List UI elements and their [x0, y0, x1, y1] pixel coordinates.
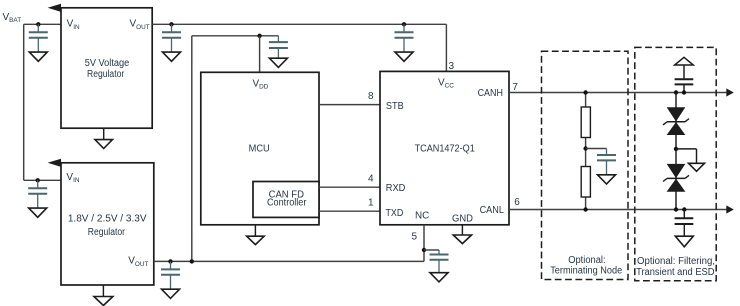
wire CANH bus: [509, 92, 727, 94]
ground TCAN GND pin: [453, 225, 471, 244]
wire TXD: [319, 210, 380, 212]
pin RXD label: [386, 183, 406, 194]
node CANL TVS junction: [674, 207, 678, 211]
node VBAT label: [3, 12, 22, 24]
wire TVS vertical: [675, 93, 677, 210]
capacitor VDD: [269, 36, 288, 68]
wire VDD rail: [192, 35, 279, 37]
wire STB: [319, 104, 380, 106]
TVS diode upper: [663, 108, 689, 135]
resistor termination lower: [581, 167, 590, 198]
block TCAN1472-Q1: [380, 71, 509, 224]
capacitor NC pin5: [430, 250, 449, 282]
pin VDD MCU: [253, 78, 269, 90]
ground lower regulator: [94, 285, 113, 306]
node VDD riser junction: [190, 259, 194, 263]
dashed box Optional Filtering Transient and ESD: [635, 47, 716, 280]
pin number 3: [449, 61, 455, 72]
wire termination cap branch: [586, 148, 607, 150]
svg-text:3: 3: [449, 61, 455, 72]
wire VBAT vertical drop: [23, 24, 25, 180]
svg-text:6: 6: [514, 197, 520, 208]
svg-text:MCU: MCU: [249, 144, 270, 155]
pin number 8: [368, 91, 374, 102]
pin VIN 5V regulator: [67, 19, 80, 31]
node VCC cap junction: [402, 22, 406, 26]
wire VBAT horizontal: [24, 23, 61, 25]
node CANH filter junction: [682, 90, 686, 94]
ground TVS midpoint: [689, 163, 705, 171]
node 5V rail cap junction: [169, 22, 173, 26]
svg-text:8: 8: [368, 91, 374, 102]
pin number 4: [368, 173, 374, 184]
node NC junction: [422, 248, 426, 252]
label Optional Filtering: [636, 256, 715, 278]
pin CANH label: [478, 88, 503, 99]
arrow filter cap up: [675, 57, 694, 65]
pin NC label: [415, 211, 429, 222]
node lower VIN junction: [36, 178, 40, 182]
block 5V Voltage Regulator: [61, 8, 152, 128]
pin VCC TCAN: [438, 78, 454, 90]
pin VOUT lower regulator: [128, 256, 148, 268]
pin number 1: [368, 197, 374, 208]
node lower VOUT cap junction: [168, 259, 172, 263]
label CAN FD Controller: [267, 190, 307, 209]
wire CANL bus: [509, 209, 727, 211]
block MCU: [201, 72, 319, 225]
wire VDD riser: [191, 36, 193, 262]
capacitor termination: [597, 149, 616, 185]
wire NC cap lead: [424, 249, 439, 251]
node VBAT junction: [36, 22, 40, 26]
pin VIN lower regulator: [66, 172, 79, 184]
wire RXD: [319, 186, 380, 188]
svg-text:CANL: CANL: [480, 205, 505, 216]
capacitor VCC: [395, 24, 414, 61]
node CANH termination junction: [583, 90, 587, 94]
wire into lower regulator VIN: [24, 179, 61, 181]
wire lower VOUT rail: [154, 260, 424, 262]
pin number 5: [411, 232, 417, 243]
input arrow 5V regulator: [48, 4, 61, 12]
block CAN FD Controller: [253, 182, 319, 218]
svg-text:4: 4: [368, 173, 374, 184]
wire VDD stub: [259, 36, 261, 73]
svg-text:Regulator: Regulator: [88, 227, 126, 238]
label TCAN1472-Q1: [415, 144, 476, 155]
arrow CANL bus: [726, 205, 734, 213]
wire termination vertical: [585, 93, 587, 210]
capacitor CANH filter: [675, 79, 694, 84]
capacitor VBAT input: [29, 24, 48, 61]
node CANL filter junction: [682, 207, 686, 211]
arrow CANH bus: [726, 88, 734, 96]
node TVS midpoint: [674, 147, 678, 151]
TVS diode lower: [663, 164, 689, 191]
wire TVS ground branch: [676, 149, 697, 163]
svg-text:7: 7: [512, 82, 518, 93]
svg-text:NC: NC: [415, 211, 429, 222]
wire VCC drop: [445, 24, 447, 71]
pin number 7: [512, 82, 518, 93]
svg-text:RXD: RXD: [386, 183, 406, 194]
block 1.8V/2.5V/3.3V Regulator: [61, 163, 154, 285]
svg-text:STB: STB: [386, 101, 404, 112]
ground 5V regulator: [95, 128, 113, 148]
svg-text:5V Voltage: 5V Voltage: [85, 58, 130, 69]
ground MCU: [247, 225, 265, 245]
svg-text:Terminating Node: Terminating Node: [550, 266, 622, 277]
pin STB label: [386, 101, 404, 112]
svg-text:1: 1: [368, 197, 374, 208]
capacitor 5V VOUT: [162, 24, 181, 61]
node termination midpoint: [583, 146, 587, 150]
svg-text:Transient and ESD: Transient and ESD: [636, 267, 714, 278]
wire filter cap upper lead: [683, 65, 685, 79]
capacitor CANL filter: [675, 218, 694, 224]
label 1.8V/2.5V/3.3V Regulator: [68, 213, 147, 238]
resistor termination upper: [581, 107, 590, 138]
wire CANL filter lead: [683, 210, 685, 219]
svg-text:1.8V / 2.5V / 3.3V: 1.8V / 2.5V / 3.3V: [68, 213, 147, 224]
svg-text:TCAN1472-Q1: TCAN1472-Q1: [415, 144, 476, 155]
svg-text:5: 5: [411, 232, 417, 243]
dashed box Optional Terminating Node: [542, 51, 629, 279]
label 5V Voltage Regulator: [85, 58, 130, 80]
pin CANL label: [480, 205, 505, 216]
input arrow lower regulator: [48, 159, 61, 167]
node CANL termination junction: [583, 207, 587, 211]
wire NC stub: [423, 225, 425, 262]
wire filter cap to CANH: [683, 84, 685, 92]
ground CANL filter: [675, 236, 693, 247]
node CANH TVS junction: [674, 90, 678, 94]
pin number 6: [514, 197, 520, 208]
svg-text:CANH: CANH: [478, 88, 503, 99]
label Optional Terminating Node: [550, 255, 622, 276]
svg-text:GND: GND: [452, 214, 473, 225]
svg-text:Regulator: Regulator: [87, 69, 125, 80]
svg-text:TXD: TXD: [386, 208, 404, 219]
wire 5V rail: [152, 23, 446, 25]
pin VOUT 5V regulator: [130, 19, 150, 31]
pin TXD label: [386, 208, 404, 219]
svg-text:Optional: Filtering,: Optional: Filtering,: [637, 256, 715, 267]
capacitor lower VOUT: [161, 261, 180, 298]
capacitor lower VIN input: [28, 180, 47, 217]
svg-text:Controller: Controller: [267, 198, 307, 209]
pin GND label: [452, 214, 473, 225]
wire CANL filter lower lead: [683, 224, 685, 236]
svg-text:VBAT: VBAT: [3, 12, 22, 24]
node VDD stub junction: [257, 34, 261, 38]
label MCU: [249, 144, 270, 155]
